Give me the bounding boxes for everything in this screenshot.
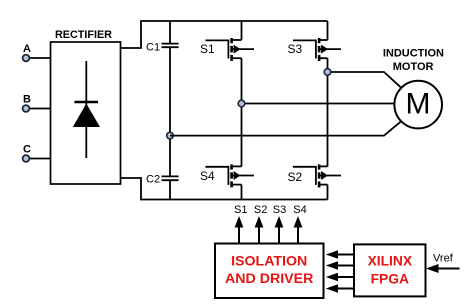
wire DC bus lower segment C2 to bottom rail bbox=[169, 180, 171, 199]
svg-text:S4: S4 bbox=[293, 204, 306, 216]
transistor S2 (MOSFET, bottom-right) bbox=[288, 164, 342, 187]
isolation and driver block U2 bbox=[215, 244, 324, 299]
wire DC bus upper segment to C1 bbox=[169, 21, 171, 43]
svg-text:S1: S1 bbox=[234, 204, 247, 216]
svg-text:B: B bbox=[23, 94, 31, 106]
arrow driver output 1 bbox=[235, 216, 244, 244]
node left leg bbox=[238, 100, 245, 107]
svg-text:XILINX: XILINX bbox=[368, 254, 413, 269]
node midpoint of DC bus bbox=[167, 132, 174, 139]
wire phase W from DC bus midpoint to motor bbox=[170, 121, 401, 135]
arrow driver output 4 bbox=[294, 216, 303, 244]
node right leg bbox=[324, 69, 331, 76]
svg-text:M: M bbox=[406, 88, 431, 121]
wire left leg S4 source to bottom rail bbox=[241, 185, 243, 200]
svg-text:S3: S3 bbox=[273, 204, 286, 216]
wire left leg S1 drain to top rail bbox=[241, 21, 243, 40]
xilinx fpga block U3 bbox=[354, 244, 426, 296]
svg-text:S1: S1 bbox=[200, 42, 215, 56]
svg-text:S2: S2 bbox=[254, 204, 267, 216]
svg-text:C2: C2 bbox=[146, 174, 160, 186]
svg-text:RECTIFIER: RECTIFIER bbox=[55, 29, 112, 41]
gate signal label S3 bbox=[273, 204, 286, 216]
svg-text:C: C bbox=[23, 144, 31, 156]
arrow FPGA to driver 2 bbox=[326, 261, 354, 269]
induction motor label bbox=[383, 47, 444, 73]
capacitor C2 bbox=[146, 174, 179, 186]
wire phase U from right leg node to motor bbox=[328, 72, 402, 88]
arrow driver output 2 bbox=[255, 216, 264, 244]
wire rectifier negative output to bottom rail bbox=[121, 178, 328, 200]
wire right leg S3 drain to top rail bbox=[327, 21, 329, 40]
motor M1 bbox=[394, 81, 442, 129]
rectifier block box bbox=[51, 42, 121, 184]
svg-text:S4: S4 bbox=[200, 169, 215, 183]
svg-text:MOTOR: MOTOR bbox=[393, 61, 434, 73]
svg-text:INDUCTION: INDUCTION bbox=[383, 47, 444, 59]
arrow FPGA to driver 4 bbox=[326, 284, 354, 292]
transistor S3 (MOSFET, top-right) bbox=[288, 38, 342, 61]
svg-text:S3: S3 bbox=[288, 42, 303, 56]
svg-text:C1: C1 bbox=[146, 42, 160, 54]
gate signal label S4 bbox=[293, 204, 306, 216]
arrow driver output 3 bbox=[275, 216, 284, 244]
terminal C bbox=[23, 144, 51, 162]
wire rectifier positive output to top rail bbox=[121, 21, 328, 48]
rectifier block label bbox=[55, 29, 112, 41]
diode D1 inside rectifier bbox=[73, 61, 100, 158]
wire right leg S2 source to bottom rail bbox=[327, 185, 329, 200]
svg-text:S2: S2 bbox=[288, 170, 303, 184]
svg-text:Vref: Vref bbox=[433, 252, 454, 264]
svg-text:AND DRIVER: AND DRIVER bbox=[225, 271, 313, 287]
wire right leg S3 source to S2 drain bbox=[327, 58, 329, 166]
wire DC bus middle segment C1 to C2 bbox=[169, 47, 171, 176]
svg-text:ISOLATION: ISOLATION bbox=[231, 254, 307, 270]
wire left leg S1 source to S4 drain bbox=[241, 58, 243, 166]
arrow Vref into FPGA bbox=[426, 264, 460, 273]
svg-text:A: A bbox=[23, 43, 31, 55]
wire phase V from left leg node to motor bbox=[242, 103, 395, 105]
transistor S1 (MOSFET, top-left) bbox=[200, 38, 254, 61]
Vref input label bbox=[433, 252, 454, 264]
arrow FPGA to driver 3 bbox=[326, 273, 354, 281]
terminal B bbox=[23, 94, 51, 112]
gate signal label S1 bbox=[234, 204, 247, 216]
gate signal label S2 bbox=[254, 204, 267, 216]
arrow FPGA to driver 1 bbox=[326, 250, 354, 258]
capacitor C1 bbox=[146, 42, 179, 54]
transistor S4 (MOSFET, bottom-left) bbox=[200, 164, 254, 187]
svg-text:FPGA: FPGA bbox=[371, 271, 409, 286]
terminal A bbox=[23, 43, 51, 61]
